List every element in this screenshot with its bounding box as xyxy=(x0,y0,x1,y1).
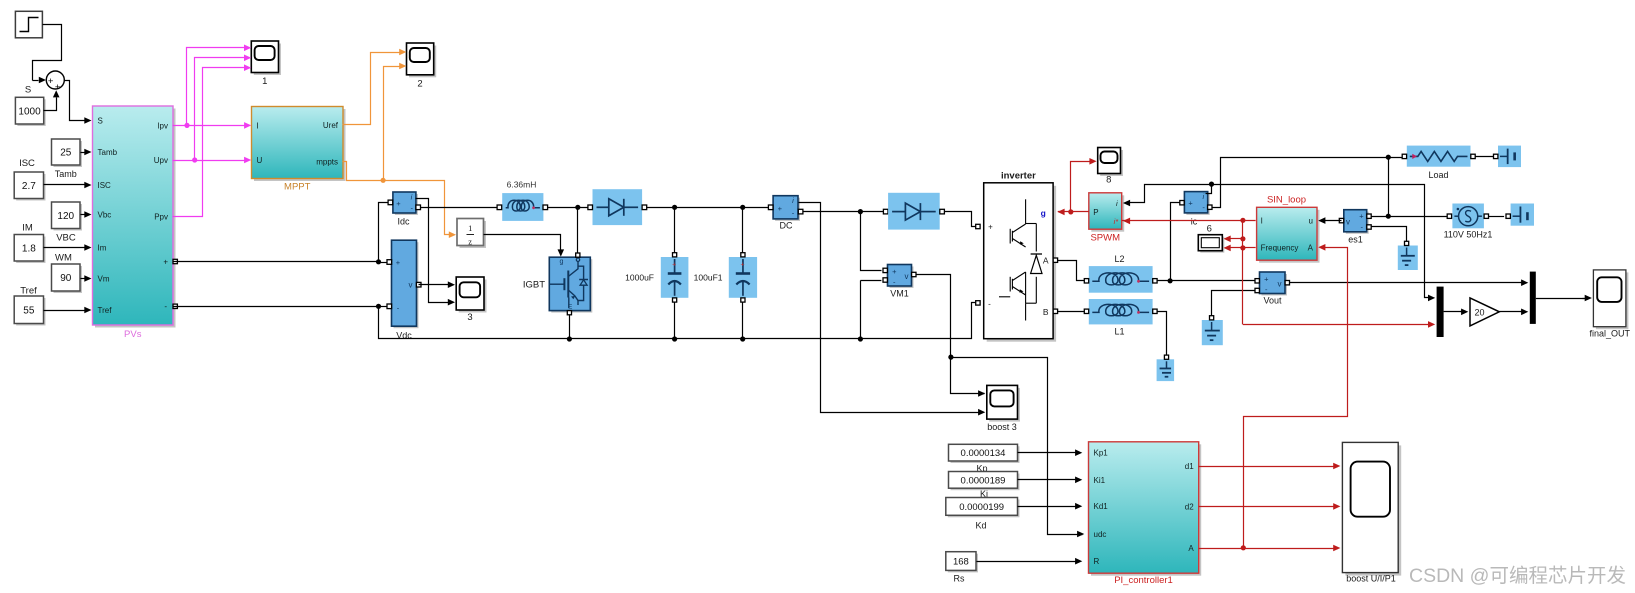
svg-text:+: + xyxy=(396,199,401,208)
svg-text:inverter: inverter xyxy=(1001,171,1036,182)
svg-text:DC: DC xyxy=(780,221,793,231)
svg-text:Uref: Uref xyxy=(323,121,339,130)
svg-text:U: U xyxy=(257,156,263,165)
svg-text:v: v xyxy=(1278,280,1282,289)
svg-text:final_OUT: final_OUT xyxy=(1590,329,1631,339)
svg-text:A: A xyxy=(1188,544,1194,553)
svg-text:Kd: Kd xyxy=(975,520,986,530)
svg-text:100uF1: 100uF1 xyxy=(694,273,723,283)
svg-text:g: g xyxy=(560,259,564,266)
svg-text:Im: Im xyxy=(98,244,107,253)
svg-text:Ppv: Ppv xyxy=(154,213,168,222)
svg-text:ic: ic xyxy=(1191,217,1198,227)
svg-text:v: v xyxy=(1346,218,1350,227)
svg-text:3: 3 xyxy=(467,312,472,323)
svg-text:E: E xyxy=(568,304,573,311)
svg-text:B: B xyxy=(1043,307,1049,317)
svg-text:0.0000199: 0.0000199 xyxy=(959,502,1004,513)
svg-text:Ki1: Ki1 xyxy=(1094,476,1106,485)
svg-text:z: z xyxy=(468,236,472,246)
svg-text:PVs: PVs xyxy=(124,329,142,340)
svg-text:+: + xyxy=(1359,212,1364,221)
svg-text:L1: L1 xyxy=(1114,327,1124,337)
svg-text:Tamb: Tamb xyxy=(55,169,77,179)
svg-text:+: + xyxy=(778,204,783,213)
svg-text:Kp1: Kp1 xyxy=(1094,449,1109,458)
svg-text:1000uF: 1000uF xyxy=(625,273,654,283)
svg-text:R: R xyxy=(1094,557,1100,566)
svg-text:u: u xyxy=(1309,217,1313,226)
svg-text:+: + xyxy=(48,76,54,87)
svg-text:+: + xyxy=(672,262,676,269)
svg-text:1.8: 1.8 xyxy=(22,243,36,254)
svg-text:110V 50Hz1: 110V 50Hz1 xyxy=(1444,230,1493,240)
svg-text:-: - xyxy=(988,300,991,309)
svg-text:1000: 1000 xyxy=(18,106,41,117)
svg-text:+: + xyxy=(741,262,745,269)
svg-text:IM: IM xyxy=(22,223,33,234)
svg-text:Kd1: Kd1 xyxy=(1094,502,1109,511)
svg-text:S: S xyxy=(98,117,103,126)
svg-text:Idc: Idc xyxy=(397,217,410,227)
svg-text:20: 20 xyxy=(1474,307,1484,317)
svg-text:Vbc: Vbc xyxy=(98,211,112,220)
svg-text:PI_controller1: PI_controller1 xyxy=(1114,575,1173,586)
svg-text:g: g xyxy=(1041,208,1046,218)
svg-text:25: 25 xyxy=(60,148,72,159)
svg-text:Rs: Rs xyxy=(954,574,965,584)
svg-text:+: + xyxy=(396,258,401,267)
svg-text:S: S xyxy=(25,85,31,96)
svg-text:boost 3: boost 3 xyxy=(987,422,1017,432)
svg-text:Vout: Vout xyxy=(1263,296,1282,306)
svg-text:Load: Load xyxy=(1428,170,1448,180)
svg-text:Frequency: Frequency xyxy=(1261,244,1299,253)
svg-text:SPWM: SPWM xyxy=(1090,233,1120,244)
svg-text:6: 6 xyxy=(1207,224,1212,235)
svg-text:ISC: ISC xyxy=(19,158,35,169)
svg-text:P: P xyxy=(1093,208,1098,217)
svg-text:IGBT: IGBT xyxy=(523,279,545,290)
svg-text:90: 90 xyxy=(60,273,72,284)
svg-text:0.0000134: 0.0000134 xyxy=(961,448,1006,459)
svg-text:+: + xyxy=(892,267,897,276)
svg-text:d2: d2 xyxy=(1185,502,1194,511)
svg-text:8: 8 xyxy=(1106,175,1111,186)
svg-text:Vm: Vm xyxy=(98,275,110,284)
svg-text:v: v xyxy=(409,281,413,290)
svg-text:I: I xyxy=(257,121,259,130)
svg-text:I: I xyxy=(1261,217,1263,226)
svg-text:es1: es1 xyxy=(1348,235,1363,245)
svg-text:SIN_loop: SIN_loop xyxy=(1267,194,1306,205)
svg-text:VM1: VM1 xyxy=(890,289,909,299)
svg-text:udc: udc xyxy=(1094,530,1107,539)
svg-text:2.7: 2.7 xyxy=(22,181,36,192)
svg-text:Tamb: Tamb xyxy=(98,148,118,157)
svg-text:A: A xyxy=(1308,244,1314,253)
svg-text:+: + xyxy=(55,82,61,93)
svg-text:-: - xyxy=(164,302,167,311)
svg-text:CSDN @可编程芯片开发: CSDN @可编程芯片开发 xyxy=(1409,565,1626,587)
svg-text:d1: d1 xyxy=(1185,462,1194,471)
svg-text:6.36mH: 6.36mH xyxy=(507,180,537,190)
svg-text:MPPT: MPPT xyxy=(284,182,311,193)
svg-text:0.0000189: 0.0000189 xyxy=(961,475,1006,486)
svg-text:Upv: Upv xyxy=(154,156,168,165)
svg-text:168: 168 xyxy=(953,556,969,567)
svg-text:Tref: Tref xyxy=(20,286,37,297)
svg-text:L2: L2 xyxy=(1114,254,1124,264)
svg-text:55: 55 xyxy=(23,305,35,316)
svg-text:+: + xyxy=(1188,198,1193,207)
svg-text:2: 2 xyxy=(417,79,422,90)
svg-text:v: v xyxy=(905,272,909,281)
svg-text:Ipv: Ipv xyxy=(157,121,168,130)
svg-text:+: + xyxy=(163,257,168,266)
svg-text:1: 1 xyxy=(468,223,472,233)
svg-text:mppts: mppts xyxy=(316,158,338,167)
svg-text:boost U/I/P1: boost U/I/P1 xyxy=(1346,574,1396,584)
svg-text:+: + xyxy=(1264,274,1269,283)
svg-text:Tref: Tref xyxy=(98,306,113,315)
svg-text:VBC: VBC xyxy=(56,233,76,244)
svg-text:+: + xyxy=(988,223,993,232)
svg-text:WM: WM xyxy=(55,253,72,264)
svg-text:ISC: ISC xyxy=(98,181,112,190)
svg-text:1: 1 xyxy=(262,76,267,87)
svg-text:A: A xyxy=(1043,256,1049,266)
svg-text:120: 120 xyxy=(57,211,74,222)
